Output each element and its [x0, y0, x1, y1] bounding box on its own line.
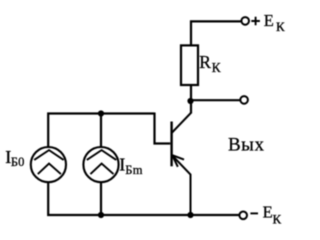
svg-text:Вых: Вых	[228, 135, 264, 156]
svg-text:К: К	[276, 19, 285, 34]
label +Ek	[251, 11, 285, 34]
terminal +Ek	[241, 17, 249, 25]
resistor RK	[181, 45, 198, 85]
wire: resistor bottom to collector node	[190, 85, 192, 114]
svg-text:К: К	[273, 212, 282, 227]
svg-text:E: E	[263, 203, 273, 222]
wire: top rail over current sources	[48, 114, 154, 147]
transistor VT: collector diagonal	[172, 113, 191, 133]
label RK	[199, 52, 221, 75]
svg-text:Б: Б	[125, 163, 132, 177]
svg-text:E: E	[264, 11, 274, 30]
node: bottom rail at emitter	[187, 212, 193, 218]
svg-text:К: К	[212, 60, 222, 75]
transistor VT: emitter arrow (points to base)	[172, 155, 184, 167]
svg-text:Б0: Б0	[11, 155, 24, 169]
wire: collector node to output terminal	[191, 99, 240, 101]
svg-text:m: m	[133, 163, 143, 177]
wire: IB0 bottom lead and bottom rail	[48, 182, 239, 215]
label -Ek	[250, 203, 281, 227]
svg-text:R: R	[199, 52, 211, 72]
current source IBm	[83, 147, 118, 182]
node: top rail junction at IBm	[98, 110, 104, 116]
transistor VT: base bar	[170, 122, 172, 167]
node: bottom rail at IBm	[98, 212, 104, 218]
current source IB0	[31, 147, 66, 182]
terminal output	[240, 96, 248, 104]
terminal -Ek	[239, 212, 247, 220]
wire: IBm bottom lead	[100, 182, 102, 215]
label IBm	[119, 155, 143, 177]
node: collector junction	[187, 98, 193, 104]
transistor VT: emitter diagonal	[172, 155, 190, 215]
label IB0	[5, 147, 24, 169]
wire: +Ek rail to resistor top	[191, 21, 241, 45]
wire: IBm top lead	[100, 114, 102, 147]
wire: base wire from sources rail	[155, 113, 171, 144]
